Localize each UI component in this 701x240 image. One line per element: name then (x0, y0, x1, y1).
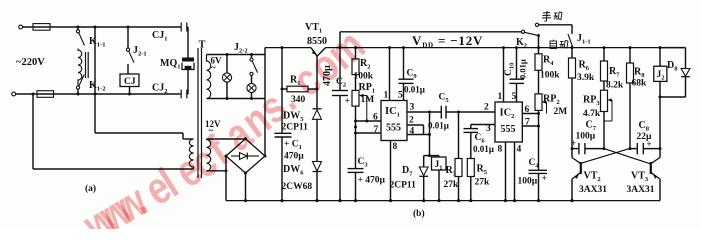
svg-text:470µ: 470µ (284, 152, 304, 162)
svg-text:7: 7 (374, 125, 379, 135)
svg-text:3AX31: 3AX31 (579, 185, 607, 195)
svg-text:+: + (647, 139, 652, 149)
svg-text:8.2k: 8.2k (606, 81, 624, 91)
svg-text:27k: 27k (475, 178, 491, 188)
svg-text:0.01µ: 0.01µ (428, 121, 450, 131)
svg-text:555: 555 (501, 124, 516, 135)
svg-text:1M: 1M (361, 95, 375, 105)
svg-text:+ 470µ: + 470µ (358, 176, 386, 186)
svg-text:3.9k: 3.9k (577, 73, 595, 83)
svg-text:3: 3 (410, 103, 415, 113)
svg-text:4: 4 (410, 127, 415, 137)
svg-text:100µ: 100µ (518, 177, 538, 187)
svg-text:0.01µ: 0.01µ (404, 85, 426, 95)
svg-text:(b): (b) (413, 208, 425, 219)
svg-text:4.7k: 4.7k (583, 109, 601, 119)
svg-text:(a): (a) (85, 183, 96, 194)
svg-text:2: 2 (409, 116, 414, 126)
svg-text:7: 7 (525, 118, 530, 128)
svg-text:+: + (571, 138, 576, 148)
svg-text:0.01µ: 0.01µ (473, 144, 495, 154)
svg-text:2: 2 (484, 103, 489, 113)
svg-text:4: 4 (517, 145, 522, 155)
svg-text:8: 8 (393, 142, 398, 152)
svg-text:27k: 27k (444, 180, 460, 190)
svg-text:3AX31: 3AX31 (627, 185, 655, 195)
svg-text:~: ~ (211, 63, 216, 73)
svg-text:555: 555 (386, 123, 401, 134)
svg-text:6: 6 (525, 105, 530, 115)
svg-text:T: T (199, 40, 206, 51)
svg-text:+: + (345, 97, 350, 107)
svg-text:2CW68: 2CW68 (282, 182, 313, 192)
svg-text:0.01µ: 0.01µ (518, 59, 528, 79)
svg-text:100µ: 100µ (576, 132, 596, 142)
svg-text:1: 1 (384, 91, 389, 101)
svg-text:CJ: CJ (124, 77, 136, 87)
svg-text:3: 3 (486, 124, 491, 134)
svg-text:2M: 2M (554, 107, 568, 117)
svg-text:68k: 68k (632, 79, 648, 89)
svg-text:5: 5 (512, 92, 517, 102)
svg-text:100k: 100k (540, 71, 560, 81)
svg-text:5: 5 (398, 91, 403, 101)
svg-text:6: 6 (373, 113, 378, 123)
svg-text:+: + (542, 174, 547, 184)
svg-text:8: 8 (498, 145, 503, 155)
svg-text:1: 1 (498, 92, 503, 102)
svg-text:~220V: ~220V (16, 57, 45, 68)
svg-text:2CP11: 2CP11 (390, 181, 417, 191)
